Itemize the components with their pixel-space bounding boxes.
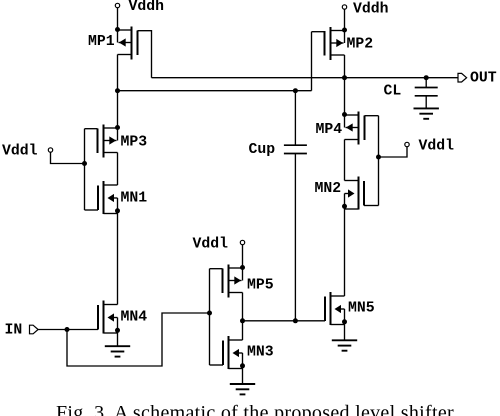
node MP1 drain (115, 88, 120, 93)
svg-text:MP3: MP3 (121, 135, 148, 151)
output port OUT (458, 73, 467, 82)
svg-text:MP4: MP4 (316, 122, 343, 138)
wire Vddh to MP2 source (344, 9, 346, 30)
ground under CL (414, 107, 439, 109)
capacitor CL (425, 78, 427, 88)
figure caption (clipped at page bottom) (56, 403, 500, 416)
wire MN3 gate stub (210, 364, 224, 366)
wire MP5 drain to node B (242, 293, 244, 321)
wire OUT line (152, 77, 459, 79)
capacitor Cup (284, 144, 307, 146)
wire Cup top (294, 91, 296, 146)
transistor MP1 (115, 27, 138, 60)
wire left rail MP1 drain to MP3 source (117, 91, 119, 128)
svg-text:Vddl: Vddl (419, 139, 455, 155)
ground under MN4 (117, 333, 119, 346)
svg-text:MP1: MP1 (88, 34, 115, 50)
wire IN branch to MP5/MN3 gate (67, 313, 210, 366)
svg-text:Vddl: Vddl (2, 144, 38, 160)
wire right rail MN2 source to MN5 drain (344, 209, 346, 296)
svg-text:MP2: MP2 (347, 37, 374, 53)
wire left rail MN1 source to MN4 drain (117, 214, 119, 305)
power terminal Vddl (middle) (240, 240, 244, 244)
transistor MN5 (325, 292, 347, 325)
wire Vddl-left to gate line (51, 152, 85, 163)
power terminal Vddl (right) (405, 142, 409, 146)
wire IN to MN4 gate (38, 329, 98, 331)
wire MP1 gate to OUT line (138, 31, 152, 78)
input port IN (30, 325, 39, 334)
wire MP5 gate stub (210, 268, 223, 270)
wire common gate line MP3/MN1 (84, 129, 86, 210)
svg-text:CL: CL (384, 84, 402, 100)
svg-text:MN1: MN1 (121, 191, 148, 207)
power terminal Vddh (right) (342, 5, 346, 9)
wire Vddl-right to gate line (379, 147, 408, 157)
node Cup top tap (293, 88, 298, 93)
transistor MN3 (223, 336, 245, 369)
svg-text:Vddl: Vddl (193, 237, 229, 253)
wire node-A horizontal (MP1 drain to MP2 gate riser) (118, 90, 312, 92)
wire Vddh to MP1 source (117, 8, 119, 30)
wire MP2 gate riser (311, 32, 313, 91)
wire node B rail to MN3 drain (242, 321, 244, 340)
wire MP1 drain down (117, 55, 119, 91)
power terminal Vddh (left) (115, 3, 119, 7)
svg-text:Cup: Cup (249, 142, 276, 158)
wire MN1 gate stub (85, 209, 99, 211)
node IN branch (65, 327, 70, 332)
svg-text:OUT: OUT (470, 71, 497, 87)
wire MP3 drain to MN1 drain (117, 153, 119, 186)
wire Vddl-mid to MP5 source (242, 245, 244, 268)
node B (MP5/MN3 drains) (240, 318, 245, 323)
wire node B to MN5 gate (243, 320, 326, 322)
transistor MN2 (342, 177, 364, 210)
wire MP4 drain to MN2 drain (344, 140, 346, 181)
svg-text:IN: IN (5, 323, 23, 339)
node IN-to-gate junction (207, 311, 212, 316)
node Cup bottom tap (293, 318, 298, 323)
ground under MN3 (242, 369, 244, 384)
wire MP2 gate stub (312, 31, 325, 33)
svg-text:MN3: MN3 (247, 345, 274, 361)
wire Cup bottom (294, 154, 296, 321)
svg-text:MN5: MN5 (348, 301, 375, 317)
svg-text:MP5: MP5 (247, 278, 274, 294)
wire common gate line MP5/MN3 (209, 269, 211, 365)
transistor MP2 (325, 27, 348, 60)
svg-text:Vddh: Vddh (129, 0, 165, 15)
power terminal Vddl (left) (48, 148, 52, 152)
transistor MP5 (223, 265, 246, 298)
transistor MP3 (98, 125, 121, 158)
transistor MN4 (98, 301, 120, 334)
wire common gate line MP4/MN2 (378, 116, 380, 206)
svg-text:Vddh: Vddh (353, 2, 389, 18)
wire MP3 gate stub to common gate line (85, 128, 98, 130)
node OUT (MP2 drain) (342, 75, 347, 80)
node Vddl-left junction (82, 161, 87, 166)
transistor MN1 (98, 181, 120, 214)
ground under MN5 (344, 325, 346, 341)
svg-text:MN4: MN4 (121, 310, 148, 326)
wire MN2 gate stub (364, 205, 379, 207)
wire MP4 gate stub (365, 115, 379, 117)
node Vddl-right junction (376, 155, 381, 160)
node CL tap (424, 75, 429, 80)
wire MP2 drain to OUT node (344, 55, 346, 78)
svg-text:MN2: MN2 (315, 181, 342, 197)
transistor MP4 (342, 112, 365, 145)
wire OUT node to MP4 source (344, 78, 346, 115)
